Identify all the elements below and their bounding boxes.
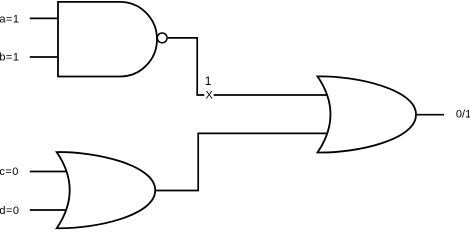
svg-text:X: X [206, 89, 214, 101]
wire input c [30, 171, 67, 173]
gap behind X [204, 89, 213, 101]
svg-text:1: 1 [205, 74, 212, 88]
wire or2 output to node [155, 133, 327, 190]
wire input b [30, 56, 58, 58]
svg-text:a=1: a=1 [0, 13, 19, 25]
wire output [416, 114, 444, 116]
svg-text:d=0: d=0 [0, 205, 19, 217]
nand gate U1 [58, 2, 157, 77]
nand bubble [157, 33, 167, 43]
or gate U2 (bottom left) [57, 152, 156, 228]
wire input a [30, 17, 58, 19]
wire nand output to node [168, 38, 327, 95]
svg-text:b=1: b=1 [0, 51, 19, 63]
svg-text:0/1: 0/1 [456, 109, 470, 121]
wire input d [30, 209, 67, 211]
or gate U3 (right) [318, 76, 417, 152]
svg-text:c=0: c=0 [0, 166, 19, 178]
